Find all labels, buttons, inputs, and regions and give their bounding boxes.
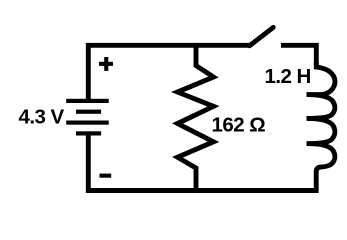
battery minus sign (100, 174, 112, 178)
resistor R1 zigzag (178, 45, 214, 190)
svg-text:162 Ω: 162 Ω (212, 113, 266, 136)
svg-text:4.3 V: 4.3 V (19, 106, 65, 129)
inductor L1 coil (4 loops) (307, 62, 336, 190)
switch S1 (open lever) (250, 27, 274, 45)
svg-text:1.2 H: 1.2 H (265, 65, 311, 88)
battery B1 plates (66, 99, 109, 136)
wire switch to top-right corner down to inductor (281, 45, 316, 65)
wire battery-top to top-left corner to switch (88, 45, 249, 101)
battery plus sign (99, 57, 113, 71)
wire bottom: inductor bottom to bottom-left corner up to battery minus (88, 133, 318, 191)
